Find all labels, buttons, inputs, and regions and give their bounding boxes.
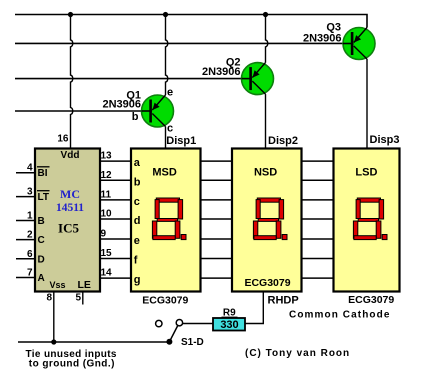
svg-text:B: B (38, 216, 45, 227)
svg-text:(C) Tony van Roon: (C) Tony van Roon (245, 348, 350, 359)
svg-text:LE: LE (78, 279, 91, 291)
svg-text:ECG3079: ECG3079 (244, 277, 290, 289)
svg-text:15: 15 (101, 248, 113, 259)
svg-text:2N3906: 2N3906 (303, 33, 342, 45)
svg-text:12: 12 (101, 170, 113, 181)
svg-text:MC: MC (60, 187, 80, 201)
svg-text:c: c (134, 196, 140, 208)
svg-text:S1-D: S1-D (181, 337, 204, 348)
svg-text:LT: LT (38, 192, 49, 203)
svg-text:4: 4 (27, 163, 33, 174)
svg-text:330: 330 (220, 319, 238, 331)
svg-text:d: d (134, 215, 141, 227)
svg-text:ECG3079: ECG3079 (142, 295, 188, 307)
svg-text:IC5: IC5 (58, 221, 79, 236)
svg-text:A: A (38, 273, 45, 284)
svg-text:14511: 14511 (56, 202, 84, 214)
svg-text:c: c (167, 123, 173, 135)
svg-text:2: 2 (27, 230, 33, 241)
svg-text:f: f (134, 255, 138, 267)
svg-text:b: b (134, 176, 141, 188)
svg-text:a: a (134, 157, 141, 169)
svg-text:Common Cathode: Common Cathode (289, 310, 391, 321)
svg-text:7: 7 (27, 268, 33, 279)
svg-text:13: 13 (101, 151, 113, 162)
svg-text:NSD: NSD (254, 167, 277, 179)
svg-text:Vss: Vss (50, 280, 66, 290)
svg-text:5: 5 (75, 293, 81, 304)
svg-text:to ground (Gnd.): to ground (Gnd.) (29, 359, 115, 370)
svg-text:14: 14 (101, 268, 113, 279)
svg-text:e: e (167, 87, 173, 99)
svg-text:BI: BI (38, 168, 48, 179)
svg-text:Disp3: Disp3 (370, 134, 400, 146)
svg-text:D: D (38, 254, 45, 265)
svg-text:Vdd: Vdd (61, 150, 80, 161)
svg-text:11: 11 (101, 189, 112, 200)
svg-text:g: g (134, 274, 141, 286)
svg-text:2N3906: 2N3906 (202, 66, 241, 78)
svg-text:MSD: MSD (152, 167, 177, 179)
svg-text:RHDP: RHDP (268, 295, 299, 307)
svg-text:10: 10 (101, 209, 113, 220)
svg-text:3: 3 (27, 187, 33, 198)
svg-text:8: 8 (46, 293, 52, 304)
svg-text:b: b (132, 111, 139, 123)
svg-text:9: 9 (101, 229, 107, 240)
svg-text:e: e (134, 235, 140, 247)
svg-text:C: C (38, 235, 45, 246)
svg-text:ECG3079: ECG3079 (348, 294, 394, 306)
svg-text:LSD: LSD (355, 167, 377, 179)
svg-text:2N3906: 2N3906 (102, 99, 141, 111)
svg-text:Disp1: Disp1 (166, 135, 196, 147)
svg-text:6: 6 (27, 249, 33, 260)
svg-text:1: 1 (27, 211, 33, 222)
svg-text:16: 16 (57, 134, 69, 145)
svg-text:Disp2: Disp2 (268, 135, 298, 147)
